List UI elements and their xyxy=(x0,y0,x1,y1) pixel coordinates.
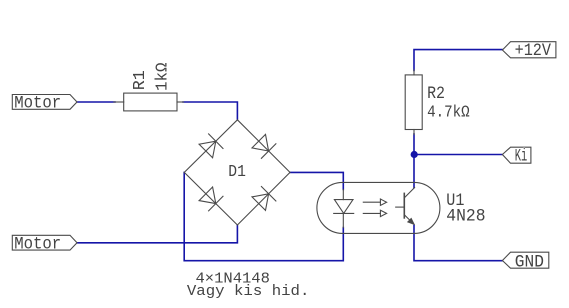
U1 light arrows xyxy=(363,199,386,217)
svg-text:R1: R1 xyxy=(131,70,150,90)
resistor R2 xyxy=(405,70,422,135)
wire R1 to bridge top vertex xyxy=(183,102,237,119)
connector Ki xyxy=(502,147,531,166)
optocoupler U1 body xyxy=(317,182,440,233)
connector Motor (bottom) xyxy=(12,234,77,254)
wire emitter to GND xyxy=(414,226,502,261)
connector +12V xyxy=(502,41,556,61)
diode D1 upper-right (points to right vertex) xyxy=(252,134,276,158)
svg-text:Motor: Motor xyxy=(14,234,61,254)
wire R2 bottom to collector (through node Ki) xyxy=(413,134,415,188)
junction node Ki xyxy=(411,151,418,158)
U1 phototransistor xyxy=(396,188,415,225)
svg-text:+12V: +12V xyxy=(515,41,552,61)
diode D1 upper-left (points to top vertex) xyxy=(199,134,223,158)
diode D1 lower-left (points to bottom vertex) xyxy=(199,187,223,211)
wire bridge right vertex to LED anode xyxy=(290,172,343,189)
wire bridge left vertex down and right to LED cathode xyxy=(184,172,343,260)
U1 LED xyxy=(334,190,354,228)
svg-text:D1: D1 xyxy=(228,163,246,182)
svg-text:4.7kΩ: 4.7kΩ xyxy=(427,104,470,123)
svg-text:4N28: 4N28 xyxy=(446,208,485,227)
svg-text:Motor: Motor xyxy=(14,94,61,114)
wire Motor-bottom to bridge bottom vertex xyxy=(77,226,237,243)
connector GND xyxy=(502,252,548,272)
svg-text:Ki: Ki xyxy=(515,147,528,166)
svg-text:Vagy kis hid.: Vagy kis hid. xyxy=(187,284,310,300)
svg-text:R2: R2 xyxy=(427,84,445,104)
wire node to Ki connector xyxy=(414,154,502,156)
svg-text:1kΩ: 1kΩ xyxy=(154,63,173,92)
wire R2 top to +12V xyxy=(414,50,502,71)
wire Motor-top to R1 xyxy=(77,101,115,103)
connector Motor (top) xyxy=(12,94,77,114)
diode D1 lower-right (points to right vertex) xyxy=(252,187,276,211)
svg-text:GND: GND xyxy=(515,252,544,272)
diode bridge D1 outline xyxy=(184,120,290,225)
resistor R1 xyxy=(114,93,184,111)
